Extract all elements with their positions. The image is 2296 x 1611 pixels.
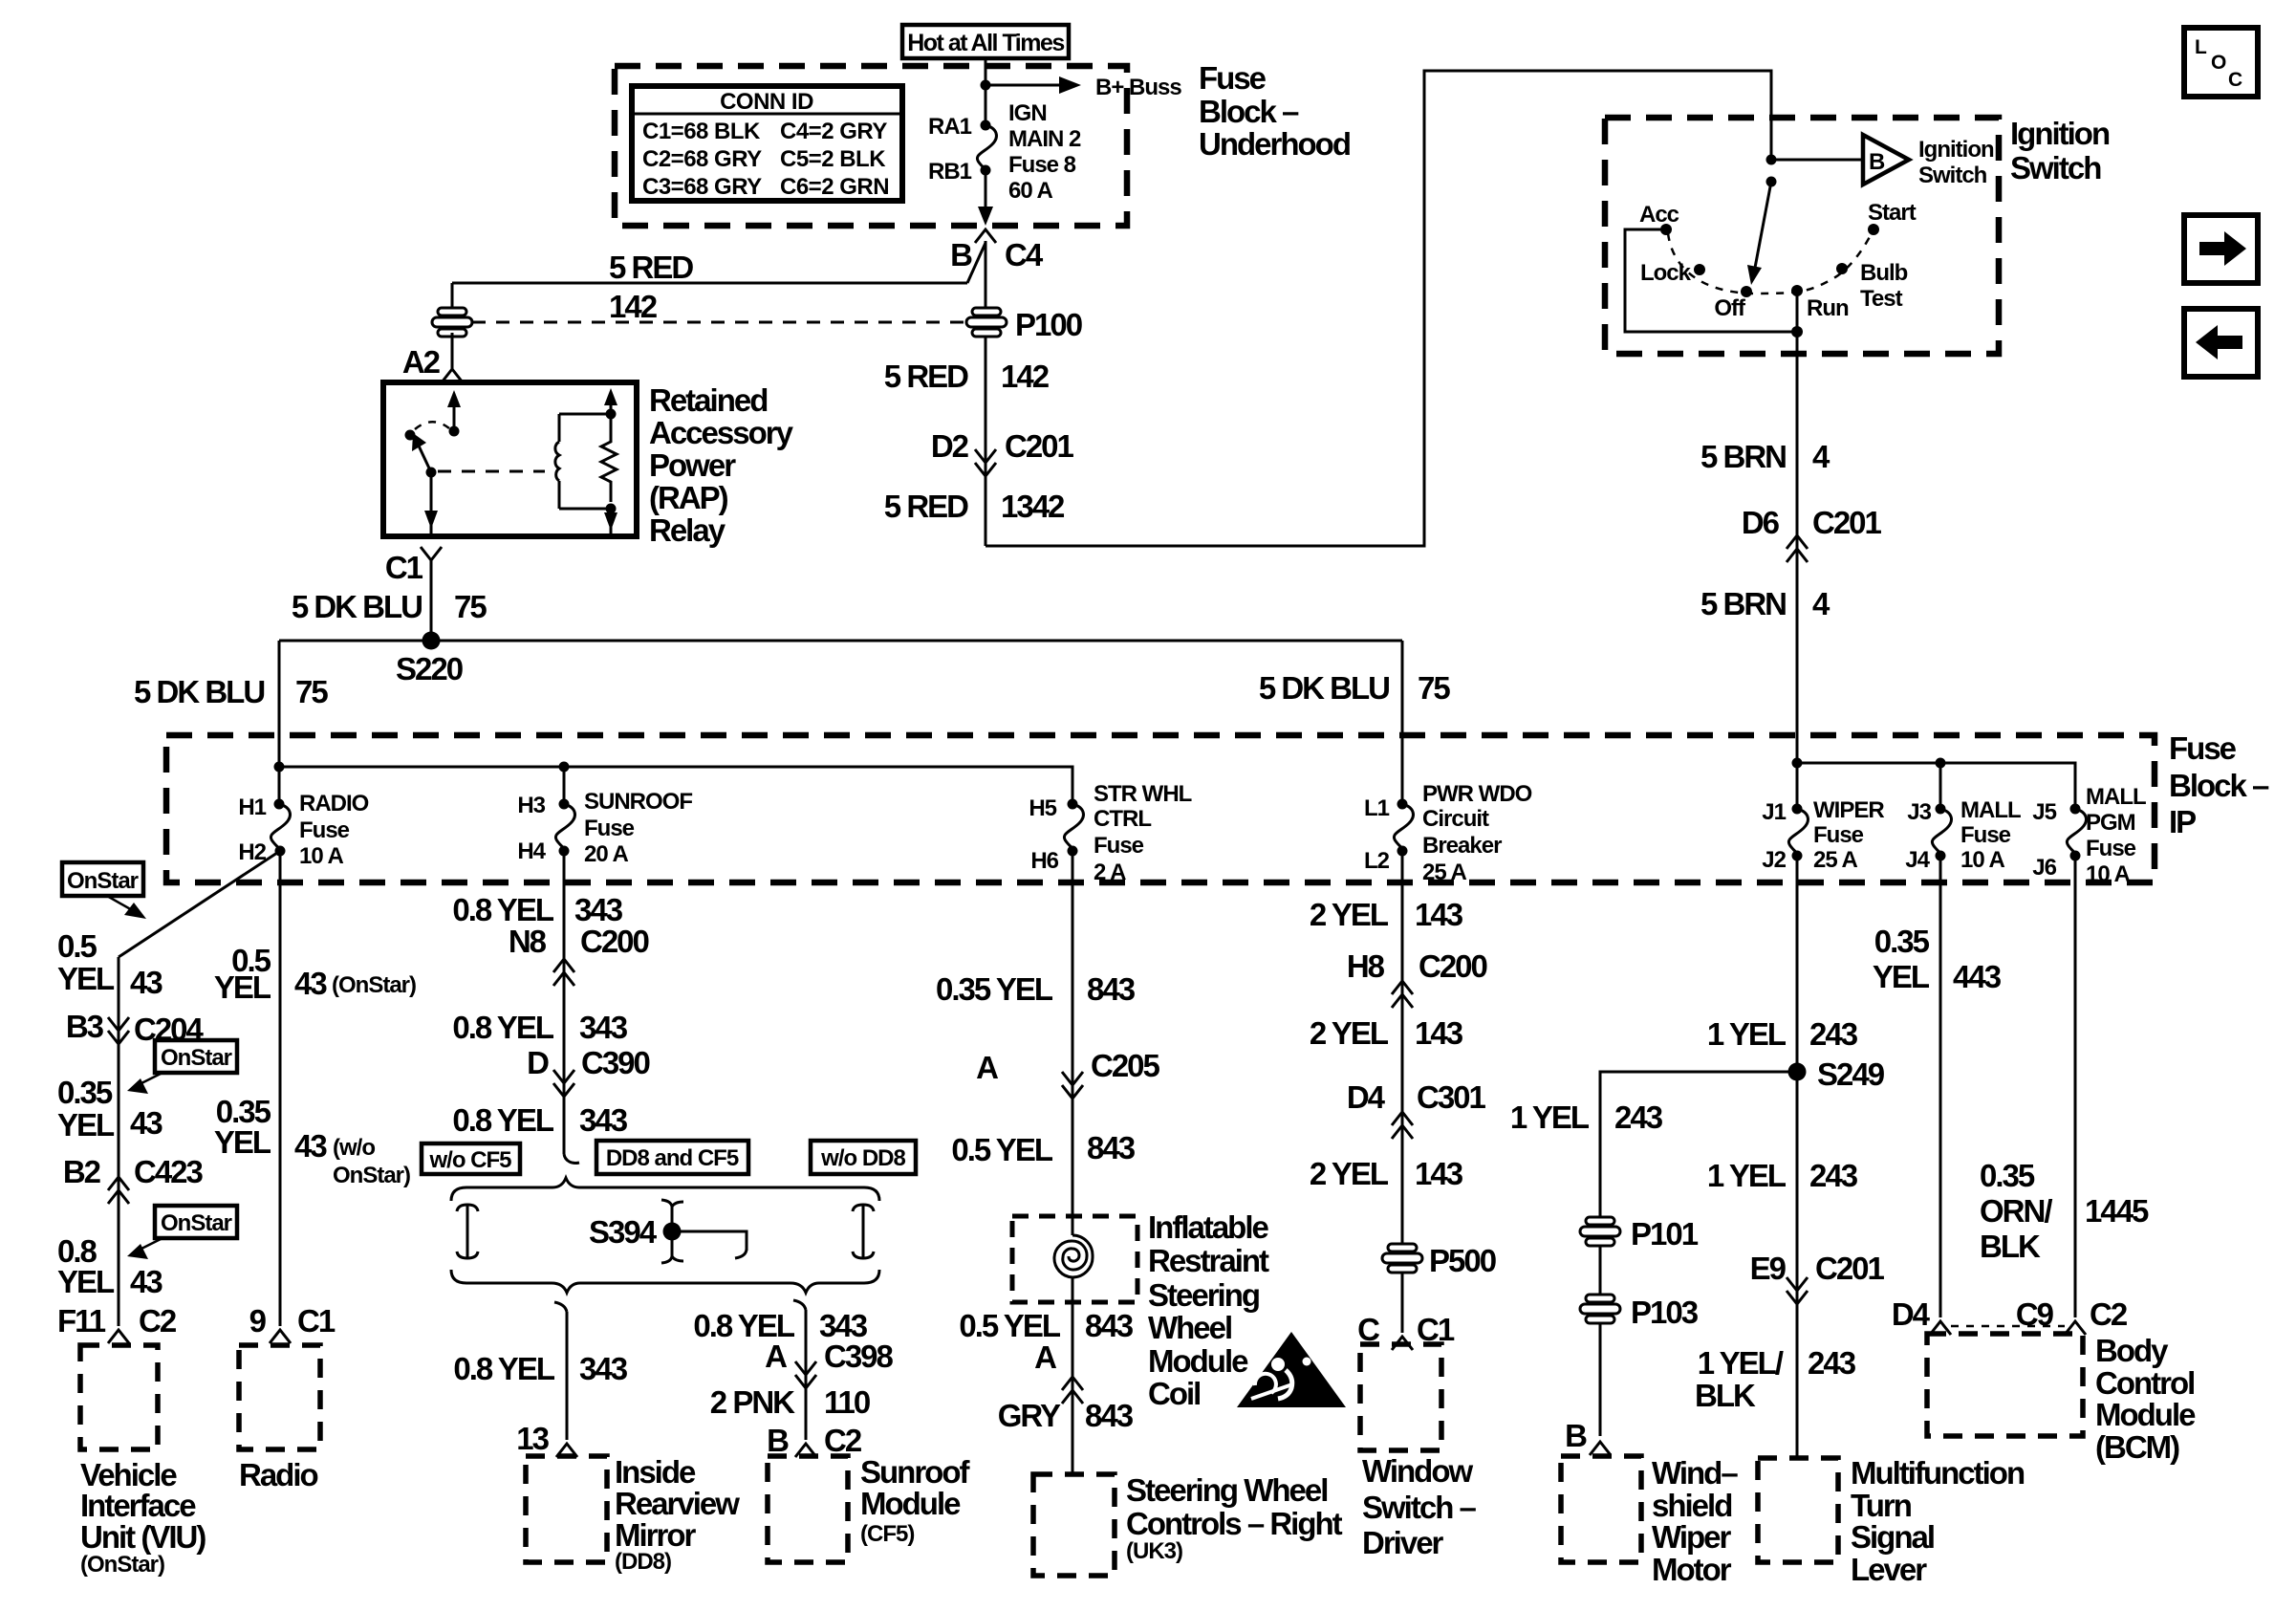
wire Run output (1796, 291, 1799, 332)
svg-text:H3: H3 (517, 793, 545, 818)
svg-text:C301: C301 (1417, 1079, 1486, 1115)
wire 5 DK BLU 75 from relay (430, 560, 433, 641)
svg-text:Accessory: Accessory (649, 415, 794, 450)
svg-text:(OnStar): (OnStar) (332, 972, 416, 998)
wire sunroof column 0.8 YEL 343 (563, 851, 566, 1154)
svg-text:Controls – Right: Controls – Right (1126, 1506, 1343, 1541)
svg-text:0.8 YEL: 0.8 YEL (452, 1102, 553, 1138)
node Lock (1694, 264, 1705, 275)
svg-text:Unit (VIU): Unit (VIU) (80, 1519, 206, 1555)
svg-text:Module: Module (1148, 1343, 1248, 1379)
connector B3 C204 (108, 1017, 129, 1031)
svg-text:MALL: MALL (1960, 797, 2021, 823)
svg-text:343: 343 (574, 892, 623, 927)
svg-text:2 YEL: 2 YEL (1310, 897, 1389, 932)
svg-text:w/o DD8: w/o DD8 (820, 1145, 905, 1171)
svg-text:Motor: Motor (1652, 1552, 1732, 1587)
svg-text:DD8 and CF5: DD8 and CF5 (606, 1145, 739, 1171)
connector C9 C2 entry to BCM (2065, 1321, 2086, 1335)
svg-text:0.8 YEL: 0.8 YEL (452, 1010, 553, 1045)
svg-text:OnStar: OnStar (67, 868, 139, 894)
svg-text:C390: C390 (581, 1045, 650, 1080)
label box OnStar (mid) (155, 1040, 237, 1073)
svg-text:shield: shield (1652, 1488, 1731, 1523)
svg-text:Fuse: Fuse (2086, 836, 2136, 861)
svg-text:Fuse: Fuse (1960, 822, 2011, 848)
svg-text:WIPER: WIPER (1813, 797, 1884, 823)
svg-text:Driver: Driver (1362, 1525, 1444, 1560)
svg-text:Mirror: Mirror (615, 1517, 697, 1553)
svg-text:S220: S220 (396, 651, 463, 686)
relay switch left contact (405, 430, 416, 441)
svg-text:Start: Start (1868, 200, 1917, 226)
relay switch movement dashed arc (415, 422, 449, 429)
svg-text:Coil: Coil (1148, 1376, 1200, 1411)
svg-text:BLK: BLK (1980, 1229, 2041, 1264)
svg-text:J2: J2 (1762, 847, 1786, 873)
svg-text:43: 43 (130, 1264, 162, 1299)
connector D6 C201 (1787, 535, 1808, 549)
svg-text:343: 343 (579, 1010, 628, 1045)
svg-text:5 BRN: 5 BRN (1700, 439, 1786, 474)
arrow from OnStar mid box (141, 1073, 162, 1083)
svg-text:343: 343 (579, 1351, 628, 1386)
connector 9 C1 entry to Radio (270, 1330, 291, 1343)
component box Radio (239, 1345, 320, 1449)
svg-text:B: B (1565, 1418, 1587, 1453)
svg-text:(UK3): (UK3) (1126, 1538, 1182, 1564)
svg-text:Interface: Interface (80, 1488, 196, 1523)
svg-text:B+ Buss: B+ Buss (1095, 75, 1181, 100)
wire radio feed from H2 (279, 851, 282, 1326)
svg-text:C1=68 BLK: C1=68 BLK (642, 119, 761, 144)
svg-text:Switch: Switch (2010, 150, 2101, 185)
svg-text:N8: N8 (509, 924, 547, 959)
svg-text:Restraint: Restraint (1148, 1243, 1269, 1278)
component box Vehicle Interface Unit (80, 1345, 158, 1449)
svg-text:Fuse: Fuse (1813, 822, 1864, 848)
svg-text:C1: C1 (297, 1303, 336, 1339)
svg-text:843: 843 (1087, 1130, 1136, 1165)
svg-text:STR WHL: STR WHL (1094, 781, 1192, 807)
svg-text:B: B (950, 237, 972, 272)
component box Windshield Wiper Motor (1561, 1456, 1641, 1562)
svg-text:243: 243 (1808, 1345, 1856, 1381)
svg-text:L1: L1 (1364, 795, 1390, 821)
svg-text:Ignition: Ignition (2010, 116, 2110, 151)
svg-text:J6: J6 (2032, 855, 2056, 881)
svg-text:Retained: Retained (649, 382, 767, 418)
svg-text:Module: Module (860, 1486, 961, 1521)
svg-text:Circuit: Circuit (1422, 806, 1489, 832)
wire 5 RED routing to ignition switch (986, 71, 1771, 546)
connector B entry to wiper motor (1590, 1442, 1611, 1455)
svg-text:243: 243 (1809, 1158, 1858, 1193)
svg-text:Switch –: Switch – (1362, 1490, 1477, 1525)
connector A C205 (1062, 1072, 1083, 1085)
svg-text:Fuse: Fuse (584, 816, 635, 841)
svg-text:C2: C2 (2090, 1296, 2128, 1332)
svg-text:Lock: Lock (1640, 260, 1692, 286)
svg-text:75: 75 (1418, 670, 1450, 706)
svg-text:Fuse: Fuse (299, 817, 350, 843)
svg-text:Hot at All Times: Hot at All Times (907, 30, 1064, 56)
svg-text:Bulb: Bulb (1860, 260, 1908, 286)
wire 0.5 YEL 43 diagonal from H2 (119, 851, 280, 957)
svg-text:C201: C201 (1812, 505, 1882, 540)
airbag warning triangle (1237, 1332, 1346, 1407)
svg-text:143: 143 (1415, 1156, 1463, 1191)
svg-text:P103: P103 (1631, 1295, 1699, 1330)
wire inside rearview mirror feed (554, 1302, 567, 1312)
wire A2 drop to relay (451, 333, 454, 369)
connector F11 C2 entry to VIU (108, 1330, 129, 1343)
svg-text:4: 4 (1812, 586, 1830, 621)
connector E9 C201 (1787, 1277, 1808, 1291)
svg-text:YEL: YEL (214, 1124, 271, 1160)
svg-text:0.5 YEL: 0.5 YEL (951, 1132, 1052, 1167)
component box Window Switch Driver (1360, 1344, 1441, 1450)
svg-text:2 PNK: 2 PNK (710, 1384, 795, 1420)
svg-text:Underhood: Underhood (1199, 126, 1350, 162)
svg-text:IGN: IGN (1008, 100, 1047, 126)
svg-text:Switch: Switch (1918, 163, 1987, 188)
svg-text:CONN ID: CONN ID (720, 89, 813, 115)
svg-text:D4: D4 (1347, 1079, 1386, 1115)
component box Steering Wheel Controls (1033, 1474, 1115, 1576)
relay coil mechanical dashed link (438, 470, 545, 473)
svg-text:H5: H5 (1029, 795, 1056, 821)
svg-text:C2: C2 (139, 1303, 177, 1339)
label box "Hot at All Times" (902, 25, 1069, 58)
svg-text:243: 243 (1614, 1099, 1663, 1135)
svg-text:SUNROOF: SUNROOF (584, 789, 692, 815)
label box arrow right (2184, 215, 2258, 283)
svg-text:RADIO: RADIO (299, 791, 369, 816)
svg-text:MALL: MALL (2086, 784, 2146, 810)
fuse block underhood dashed box (615, 66, 1127, 226)
connector 13 entry to mirror (556, 1444, 577, 1457)
relay coil (inductor and resistor) (555, 414, 559, 509)
svg-text:Turn: Turn (1851, 1488, 1912, 1523)
svg-text:43: 43 (294, 966, 327, 1001)
svg-text:5 RED: 5 RED (884, 489, 968, 524)
wire left branch down to RADIO fuse (278, 641, 281, 804)
svg-text:1 YEL: 1 YEL (1707, 1016, 1787, 1052)
svg-text:S249: S249 (1817, 1056, 1885, 1092)
wire thin dashed link between BCM connectors (1951, 1325, 2065, 1328)
node Bulb Test (1836, 263, 1848, 274)
svg-text:P100: P100 (1015, 307, 1082, 342)
svg-text:5 RED: 5 RED (609, 250, 693, 285)
fuse RADIO 10 A (274, 799, 285, 810)
node Start (1868, 224, 1879, 235)
svg-text:(DD8): (DD8) (615, 1549, 671, 1575)
bracket right option (853, 1205, 874, 1258)
svg-text:Fuse 8: Fuse 8 (1008, 152, 1076, 178)
svg-text:CTRL: CTRL (1094, 806, 1151, 832)
svg-text:143: 143 (1415, 1015, 1463, 1051)
svg-text:20 A: 20 A (584, 841, 628, 867)
svg-text:w/o CF5: w/o CF5 (428, 1147, 511, 1173)
label box w/o CF5 (422, 1143, 520, 1174)
node Off (1741, 286, 1752, 297)
svg-text:D: D (527, 1045, 549, 1080)
svg-text:343: 343 (579, 1102, 628, 1138)
fuse block IP dashed box (166, 735, 2155, 882)
svg-text:Wheel: Wheel (1148, 1310, 1231, 1345)
svg-text:2 YEL: 2 YEL (1310, 1156, 1389, 1191)
svg-text:13: 13 (516, 1421, 549, 1456)
svg-text:C200: C200 (580, 924, 649, 959)
svg-text:Steering: Steering (1148, 1277, 1259, 1313)
fuse MALL PGM 10 A (2070, 804, 2081, 815)
svg-text:H6: H6 (1030, 848, 1058, 874)
svg-text:Power: Power (649, 447, 736, 483)
svg-text:D2: D2 (931, 428, 969, 464)
svg-text:Steering Wheel: Steering Wheel (1126, 1472, 1327, 1508)
svg-text:75: 75 (295, 674, 328, 709)
svg-text:843: 843 (1085, 1308, 1134, 1343)
svg-text:H1: H1 (238, 795, 266, 820)
label box w/o DD8 (811, 1141, 916, 1174)
relay switch contact arrow up (453, 398, 456, 431)
fuse WIPER 25 A (1796, 763, 1799, 809)
svg-text:C: C (2228, 69, 2242, 91)
wire S220 horizontal distribution (279, 640, 1402, 642)
fuse MALL 10 A (1936, 804, 1946, 815)
svg-text:J1: J1 (1762, 799, 1786, 825)
svg-text:1342: 1342 (1001, 489, 1065, 524)
svg-text:5 DK BLU: 5 DK BLU (292, 589, 422, 624)
svg-text:E9: E9 (1750, 1251, 1787, 1286)
svg-text:B3: B3 (66, 1009, 104, 1044)
svg-text:443: 443 (1953, 959, 2002, 994)
svg-text:C5=2 BLK: C5=2 BLK (780, 146, 886, 172)
svg-text:142: 142 (609, 289, 658, 324)
svg-text:Fuse: Fuse (1094, 833, 1144, 859)
svg-text:YEL: YEL (57, 1107, 115, 1143)
wire drop to MALL fuse (1939, 763, 1942, 809)
connector N8 C200 (553, 959, 574, 972)
svg-text:C4=2 GRY: C4=2 GRY (780, 119, 887, 144)
ignition rotary dashed arc (1668, 233, 1872, 294)
svg-text:0.8 YEL: 0.8 YEL (452, 892, 553, 927)
svg-text:Inflatable: Inflatable (1148, 1209, 1269, 1245)
svg-text:D6: D6 (1742, 505, 1780, 540)
wire right branch down to PWR WDO breaker (1401, 641, 1404, 804)
svg-text:PWR WDO: PWR WDO (1422, 781, 1532, 807)
svg-text:1 YEL: 1 YEL (1510, 1099, 1590, 1135)
svg-text:RB1: RB1 (928, 159, 972, 185)
wire internal bus H1-H3-H5 (279, 767, 1072, 804)
connector C1 relay output (421, 547, 442, 560)
svg-text:10 A: 10 A (299, 843, 343, 869)
component box Inside Rearview Mirror (526, 1456, 607, 1562)
ignition switch dashed box (1605, 118, 1999, 354)
svg-text:A2: A2 (402, 344, 441, 380)
svg-text:C3=68 GRY: C3=68 GRY (642, 174, 762, 200)
svg-text:P500: P500 (1429, 1243, 1496, 1278)
svg-text:10 A: 10 A (2086, 861, 2130, 887)
svg-text:Block –: Block – (1199, 94, 1299, 129)
svg-text:C201: C201 (1815, 1251, 1885, 1286)
svg-text:Multifunction: Multifunction (1851, 1455, 2025, 1491)
svg-text:B: B (1869, 149, 1885, 175)
label box LOC (2184, 28, 2258, 97)
wire from Hot at All Times down (985, 58, 987, 125)
component box Body Control Module (1927, 1334, 2083, 1436)
svg-text:YEL: YEL (57, 1264, 115, 1299)
svg-text:Inside: Inside (615, 1454, 696, 1490)
svg-text:(OnStar): (OnStar) (80, 1552, 164, 1578)
fuse SUNROOF 20 A (559, 799, 570, 810)
relay coil arrow down (610, 509, 613, 536)
svg-text:YEL: YEL (1873, 959, 1930, 994)
wire fuse output with arrow (985, 170, 987, 220)
svg-text:C200: C200 (1419, 948, 1487, 984)
svg-text:43: 43 (130, 1105, 162, 1141)
relay K RAP box (383, 382, 637, 536)
svg-text:(w/o: (w/o (333, 1135, 375, 1161)
connector P100 pass-through (472, 321, 964, 324)
circuit breaker PWR WDO 25 A (1397, 799, 1408, 810)
svg-text:L: L (2195, 36, 2207, 58)
splice S220 (422, 632, 441, 650)
svg-text:Breaker: Breaker (1422, 833, 1502, 859)
label box OnStar (top) (62, 862, 143, 896)
svg-text:H8: H8 (1347, 948, 1385, 984)
svg-text:0.5 YEL: 0.5 YEL (959, 1308, 1060, 1343)
component box Multifunction Turn Signal Lever (1758, 1458, 1838, 1562)
fuse STR WHL CTRL 2 A (1068, 799, 1078, 810)
svg-text:Control: Control (2095, 1365, 2194, 1401)
svg-text:C4: C4 (1005, 237, 1044, 272)
relay armature wire down with arrow (430, 472, 433, 536)
wire STR WHL column 0.35 YEL 843 (1072, 851, 1074, 1235)
svg-text:MAIN 2: MAIN 2 (1008, 126, 1081, 152)
svg-text:843: 843 (1087, 971, 1136, 1007)
arrow from OnStar low box (141, 1238, 162, 1249)
svg-text:143: 143 (1415, 897, 1463, 932)
svg-text:Fuse: Fuse (2169, 730, 2237, 766)
brace top (451, 1178, 879, 1201)
svg-text:IP: IP (2169, 804, 2196, 839)
svg-text:Block –: Block – (2169, 768, 2269, 803)
svg-text:25 A: 25 A (1813, 847, 1857, 873)
svg-text:Sunroof: Sunroof (860, 1454, 970, 1490)
relay armature (417, 442, 431, 472)
svg-text:YEL: YEL (57, 961, 115, 996)
label box DD8 and CF5 (596, 1141, 748, 1174)
svg-text:1445: 1445 (2085, 1193, 2149, 1229)
connector D2 C201 (975, 449, 996, 463)
svg-text:C1: C1 (385, 550, 423, 585)
svg-text:C398: C398 (824, 1339, 894, 1374)
svg-text:RA1: RA1 (928, 114, 972, 140)
svg-text:843: 843 (1085, 1398, 1134, 1433)
svg-text:Signal: Signal (1851, 1519, 1934, 1555)
node Acc (1660, 224, 1672, 235)
svg-text:Wind–: Wind– (1652, 1455, 1738, 1491)
svg-text:2 YEL: 2 YEL (1310, 1015, 1389, 1051)
connector B C2 entry to sunroof module (795, 1444, 816, 1457)
connector P103 pass-through (1580, 1295, 1620, 1323)
arrow from OnStar box (107, 896, 134, 911)
connector A C398 (795, 1361, 816, 1375)
svg-text:B2: B2 (63, 1154, 101, 1189)
svg-text:0.5: 0.5 (57, 928, 97, 964)
svg-text:C2: C2 (824, 1423, 862, 1458)
svg-text:1 YEL: 1 YEL (1707, 1158, 1787, 1193)
wire 5 RED 142 horizontal (452, 282, 967, 285)
clockspring coil spiral (1054, 1235, 1093, 1277)
wire B+ Buss arrow (986, 84, 1063, 87)
splice S249 (1788, 1063, 1807, 1081)
svg-text:Test: Test (1860, 286, 1903, 312)
svg-text:Fuse: Fuse (1199, 60, 1267, 96)
svg-text:0.8 YEL: 0.8 YEL (453, 1351, 554, 1386)
component box Sunroof Module (768, 1456, 848, 1562)
wire drop to SUNROOF fuse (563, 767, 566, 804)
svg-text:5 DK BLU: 5 DK BLU (1259, 670, 1389, 706)
label box OnStar (low) (155, 1206, 237, 1238)
svg-text:(BCM): (BCM) (2095, 1429, 2179, 1465)
svg-text:Lever: Lever (1851, 1552, 1927, 1587)
svg-text:60 A: 60 A (1008, 178, 1052, 204)
svg-text:PGM: PGM (2086, 810, 2135, 836)
svg-text:Run: Run (1807, 295, 1849, 321)
svg-text:B: B (767, 1423, 789, 1458)
svg-text:43: 43 (294, 1128, 327, 1164)
svg-text:Off: Off (1714, 295, 1746, 321)
svg-text:H4: H4 (517, 838, 546, 864)
svg-text:YEL: YEL (214, 969, 271, 1005)
svg-text:J3: J3 (1907, 799, 1931, 825)
svg-text:0.35: 0.35 (1874, 924, 1930, 959)
svg-text:C423: C423 (134, 1154, 204, 1189)
svg-text:Module: Module (2095, 1397, 2196, 1432)
wire MALL column 0.35 YEL 443 (1939, 856, 1942, 1317)
svg-text:43: 43 (130, 965, 162, 1000)
svg-text:5 BRN: 5 BRN (1700, 586, 1786, 621)
node B+ Buss junction (981, 80, 991, 91)
wire MALL PGM column 0.35 ORN/BLK 1445 (2074, 856, 2077, 1317)
wire sunroof module feed (793, 1300, 806, 1310)
svg-text:OnStar: OnStar (161, 1210, 232, 1236)
svg-text:A: A (765, 1339, 787, 1374)
svg-text:5 RED: 5 RED (884, 359, 968, 394)
svg-text:1 YEL/: 1 YEL/ (1698, 1345, 1784, 1381)
svg-text:Window: Window (1362, 1453, 1473, 1489)
connector P101 pass-through (1580, 1217, 1620, 1246)
svg-text:Radio: Radio (239, 1457, 318, 1492)
fuse IGN MAIN 2 Fuse 8 60 A (981, 120, 991, 131)
connector P500 pass-through (1382, 1244, 1422, 1273)
svg-text:BLK: BLK (1695, 1378, 1756, 1413)
svg-text:C205: C205 (1091, 1048, 1160, 1083)
svg-text:A: A (976, 1050, 998, 1085)
svg-text:GRY: GRY (998, 1398, 1061, 1433)
connector B C4 (975, 229, 996, 243)
svg-text:C2=68 GRY: C2=68 GRY (642, 146, 762, 172)
svg-text:Body: Body (2095, 1333, 2169, 1368)
relay coil arrow up (610, 396, 613, 414)
connector D4 C301 (1392, 1112, 1413, 1125)
svg-text:Acc: Acc (1639, 202, 1679, 228)
svg-text:Relay: Relay (649, 512, 726, 548)
svg-text:75: 75 (454, 589, 487, 624)
